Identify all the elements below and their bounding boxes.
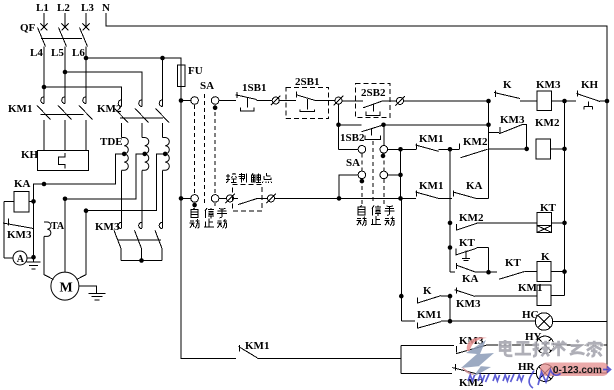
node terminal e — [266, 194, 276, 204]
contact KA control NO — [238, 198, 257, 204]
wire terminal d into box — [234, 197, 239, 199]
wire 1SB2 down to SA — [383, 125, 385, 146]
contactor KM1 pole2 — [62, 97, 65, 104]
wire KM2 coil rung — [489, 148, 527, 150]
wire KA branch from phase1 — [34, 184, 45, 201]
wire KA parallel left leg — [3, 201, 5, 258]
wire rail x450 down — [449, 149, 451, 272]
node K coil feed — [486, 270, 491, 275]
wire terminal to 2SB1 — [279, 100, 296, 102]
node coil return rail top — [562, 99, 567, 104]
svg-text:M: M — [60, 281, 73, 296]
wire rail x400 down — [400, 149, 402, 198]
node phase3 tap junction — [84, 208, 89, 213]
breaker QF pole 1 cross — [41, 24, 48, 31]
dashed box control contact — [233, 185, 262, 212]
wire 1SB1 to terminal — [257, 100, 273, 102]
svg-text:KM3: KM3 — [7, 229, 32, 241]
wire control rail upper — [180, 86, 182, 198]
node manual rung junction — [398, 147, 403, 152]
contactor KM3 pole2 — [139, 222, 142, 229]
contactor KM1 linkage bar — [40, 113, 83, 115]
wire N rail down — [606, 101, 608, 373]
svg-text:KH: KH — [581, 79, 599, 91]
node terminal c — [395, 96, 405, 106]
wire ladder rail x488 — [488, 101, 490, 198]
wire L6 branch to FU rail — [86, 58, 181, 65]
svg-text:K: K — [503, 79, 512, 91]
wire phase3 L6 — [85, 47, 87, 104]
node N rail junction — [605, 99, 610, 104]
wire KT coil return — [552, 222, 565, 224]
svg-text:TA: TA — [51, 221, 65, 232]
contactor KM2 pole1 — [118, 100, 121, 107]
wire K coil return — [551, 271, 565, 273]
svg-text:KT: KT — [505, 257, 522, 269]
label 自动 left SA — [190, 208, 200, 228]
svg-text:1SB2: 1SB2 — [340, 132, 365, 144]
TDE tap 3 — [163, 152, 168, 157]
svg-text:L3: L3 — [81, 2, 94, 14]
pushbutton 1SB1 NC contact — [236, 92, 238, 98]
watermark red band — [540, 363, 609, 377]
wire HY branch — [401, 344, 454, 346]
wire KM1 indicator feed from FU rail — [181, 198, 236, 358]
node control rail at SA — [179, 98, 184, 103]
svg-text:KM1: KM1 — [417, 309, 441, 321]
wire TDE bottoms to KM3 — [121, 170, 123, 228]
wire star point bar — [121, 260, 162, 262]
svg-text:KH: KH — [21, 149, 39, 161]
node terminal d — [225, 194, 235, 204]
svg-text:A: A — [17, 254, 25, 265]
pushbutton 2SB2 NO contact — [363, 101, 382, 108]
watermark blue scribbles — [468, 367, 611, 389]
svg-text:KM3: KM3 — [456, 298, 481, 310]
ammeter A — [13, 251, 27, 265]
svg-text:FU: FU — [188, 65, 203, 77]
thermal relay KH heater box — [38, 150, 89, 170]
wire motor ground — [79, 286, 97, 293]
wire HG to N rail — [553, 321, 607, 323]
current transformer TA — [44, 222, 51, 236]
node KM2 pole3 tap — [160, 56, 165, 61]
autotransformer TDE coil 1 — [122, 138, 129, 171]
svg-text:K: K — [423, 285, 432, 297]
wire L3 drop — [85, 13, 87, 27]
wire KM2 coil return — [551, 148, 565, 150]
ground ammeter — [27, 258, 41, 269]
node phase1 tap junction — [42, 182, 47, 187]
label 停止 left SA — [204, 208, 214, 227]
node star point — [139, 258, 144, 263]
label 手动 right SA — [385, 206, 395, 226]
selector SA dashed linkage left — [195, 94, 216, 206]
autotransformer TDE coil 3 — [163, 138, 170, 171]
node K rung junction — [486, 99, 491, 104]
contactor KM2 linkage bar — [120, 117, 163, 119]
wire L4 branch — [42, 85, 47, 90]
node KT rung — [448, 221, 453, 226]
breaker QF trip bar — [41, 38, 82, 40]
TDE tap 2 — [142, 152, 147, 157]
selector SA manual contact circles top row — [191, 97, 199, 105]
wire control rail at auto line — [179, 196, 184, 201]
wire KA coil right — [29, 200, 34, 202]
svg-text:QF: QF — [20, 22, 36, 34]
wire SA to 1SB1 — [219, 100, 236, 102]
breaker QF pole 2 cross — [62, 24, 69, 31]
wire L1 drop — [43, 13, 45, 27]
wire HR to N rail — [554, 372, 607, 374]
node KM1 coil feed tie — [448, 294, 453, 299]
wire auto line to SA — [181, 197, 191, 199]
motor M — [51, 272, 79, 300]
svg-text:KM1: KM1 — [419, 180, 443, 192]
breaker QF pole 3 cross — [83, 24, 90, 31]
wire phase1 L4 — [43, 47, 45, 104]
wire KM1 coil return — [551, 295, 565, 297]
contactor KM2 pole2 — [139, 100, 142, 107]
wire terminal c to K rung — [404, 100, 489, 102]
pushbutton 1SB2 NO contact — [362, 125, 384, 132]
wire KM3 coil to KH — [552, 100, 577, 102]
node HG tie — [448, 319, 453, 324]
svg-text:N: N — [102, 2, 110, 14]
wire phase1 to motor — [44, 237, 54, 280]
wire KM2 pole2 feed — [65, 72, 142, 107]
wire HY to N rail — [554, 344, 607, 346]
node 1SB2 out junction — [381, 123, 386, 128]
relay KA coil — [14, 192, 29, 213]
wire coil return rail — [564, 101, 566, 296]
svg-text:KA: KA — [462, 273, 479, 285]
breaker QF pole 2 blade — [59, 28, 67, 47]
wire x450 to HG rung — [449, 296, 451, 321]
svg-text:L6: L6 — [72, 47, 85, 59]
wire SA auto row right — [388, 174, 401, 176]
node 1SB2 junction — [336, 123, 341, 128]
wire SA bottom to terminal — [219, 197, 227, 199]
wire HR branch — [401, 373, 452, 375]
contactor KM3 pole3 — [159, 222, 162, 229]
wire KM2 pole1 feed — [44, 87, 122, 107]
wire KA coil left — [4, 200, 14, 202]
node terminal a — [271, 96, 281, 106]
svg-text:KM1: KM1 — [245, 340, 269, 352]
node KT/KA parallel top — [448, 245, 453, 250]
wire SA manual row out — [388, 148, 416, 150]
wire phase2 L5 — [64, 47, 66, 104]
watermark logo — [467, 337, 487, 351]
wire KM1 pole outputs to KH — [43, 120, 45, 150]
svg-text:L5: L5 — [51, 47, 64, 59]
svg-text:TDE: TDE — [100, 136, 123, 148]
svg-text:KM1: KM1 — [8, 103, 32, 115]
wire terminal b drop — [338, 104, 340, 149]
watermark text 电工技术之家 — [468, 340, 611, 388]
svg-text:KA: KA — [466, 180, 483, 192]
wire terminal b to 2SB2 — [342, 100, 363, 102]
node ammeter ground junction — [31, 255, 36, 260]
svg-text:KM3: KM3 — [95, 221, 120, 233]
contactor KM3 pole1 — [118, 222, 121, 229]
label 停止 right SA — [371, 206, 381, 225]
contactor KM3 linkage bar — [118, 239, 161, 241]
wire 1SB2 to K rail — [384, 124, 489, 126]
wire to 1SB2 — [339, 124, 362, 126]
wire 2SB2 to terminal c — [383, 100, 397, 102]
fuse FU — [177, 65, 185, 86]
label 自动 right SA — [357, 206, 367, 226]
wire KA parallel left leg — [449, 248, 451, 273]
svg-text:L2: L2 — [57, 2, 70, 14]
svg-text:1SB1: 1SB1 — [242, 82, 266, 94]
svg-text:KM3: KM3 — [536, 79, 561, 91]
node KM2 coil feed — [524, 147, 529, 152]
node KM3 aux rung — [486, 123, 491, 128]
wire SA auto row left — [339, 175, 358, 199]
selector SA right dashed linkage — [362, 141, 384, 204]
node manual-auto tie — [448, 147, 453, 152]
svg-text:SA: SA — [346, 157, 360, 169]
selector SA left circles bottom row — [191, 195, 199, 203]
svg-text:KM2: KM2 — [463, 136, 488, 148]
selector SA right circles manual row — [358, 146, 366, 154]
contactor KM1 pole3 — [83, 97, 86, 104]
wire ammeter right — [27, 257, 34, 259]
wire KA parallel right leg — [33, 201, 35, 257]
svg-text:KM2: KM2 — [459, 212, 484, 224]
node terminal b — [334, 96, 344, 106]
TDE tap 1 — [122, 152, 127, 157]
ground motor — [89, 293, 106, 299]
autotransformer TDE coil 2 — [142, 138, 149, 171]
contactor KM1 pole1 — [41, 97, 44, 104]
contact KM3 aux NC (shunt) — [8, 219, 10, 226]
wire ammeter left — [4, 257, 13, 259]
selector SA right circles auto row — [358, 171, 366, 179]
svg-text:KM2: KM2 — [535, 117, 560, 129]
svg-text:L4: L4 — [30, 47, 43, 59]
svg-text:2SB2: 2SB2 — [361, 87, 386, 99]
svg-text:KM1: KM1 — [518, 282, 542, 294]
wire phase2 to motor — [64, 199, 66, 272]
wire L2 drop — [64, 13, 66, 27]
wire KT parallel right leg — [488, 248, 490, 273]
wire N drop and bus — [106, 13, 607, 101]
svg-text:KM1: KM1 — [419, 133, 443, 145]
svg-text:KM3: KM3 — [500, 114, 525, 126]
breaker QF pole 3 blade — [80, 28, 88, 47]
wire to SA circle — [181, 100, 191, 102]
breaker QF pole 1 blade — [38, 28, 46, 47]
wire auto line continues — [275, 197, 417, 199]
wire indicator split bar — [400, 345, 402, 373]
svg-text:2SB1: 2SB1 — [295, 76, 319, 88]
label 控制触点 — [226, 173, 272, 183]
contactor KM2 pole3 — [159, 100, 162, 107]
label 手动 left SA — [217, 208, 227, 228]
wire terminal b corner into SA manual row — [339, 148, 359, 150]
wire 2SB1 to terminal b — [316, 100, 335, 102]
wire KM2 pole outputs to TDE — [121, 123, 123, 138]
node branch L6 to control/KM2 — [84, 56, 89, 61]
node K rung lamp section — [399, 294, 404, 299]
svg-text:L1: L1 — [36, 2, 49, 14]
wire L5 branch — [63, 70, 68, 75]
wire phase3 to motor — [77, 211, 87, 280]
svg-text:KT: KT — [459, 237, 476, 249]
pushbutton 2SB1 dashed box — [286, 87, 329, 118]
svg-text:KA: KA — [14, 178, 31, 190]
wire KM2 pole3 feed — [162, 58, 164, 107]
pushbutton 2SB2 dashed box — [356, 84, 391, 118]
node phase2 tap junction — [63, 197, 68, 202]
svg-text:SA: SA — [200, 80, 214, 92]
pushbutton 2SB1 NC contact — [296, 92, 298, 98]
